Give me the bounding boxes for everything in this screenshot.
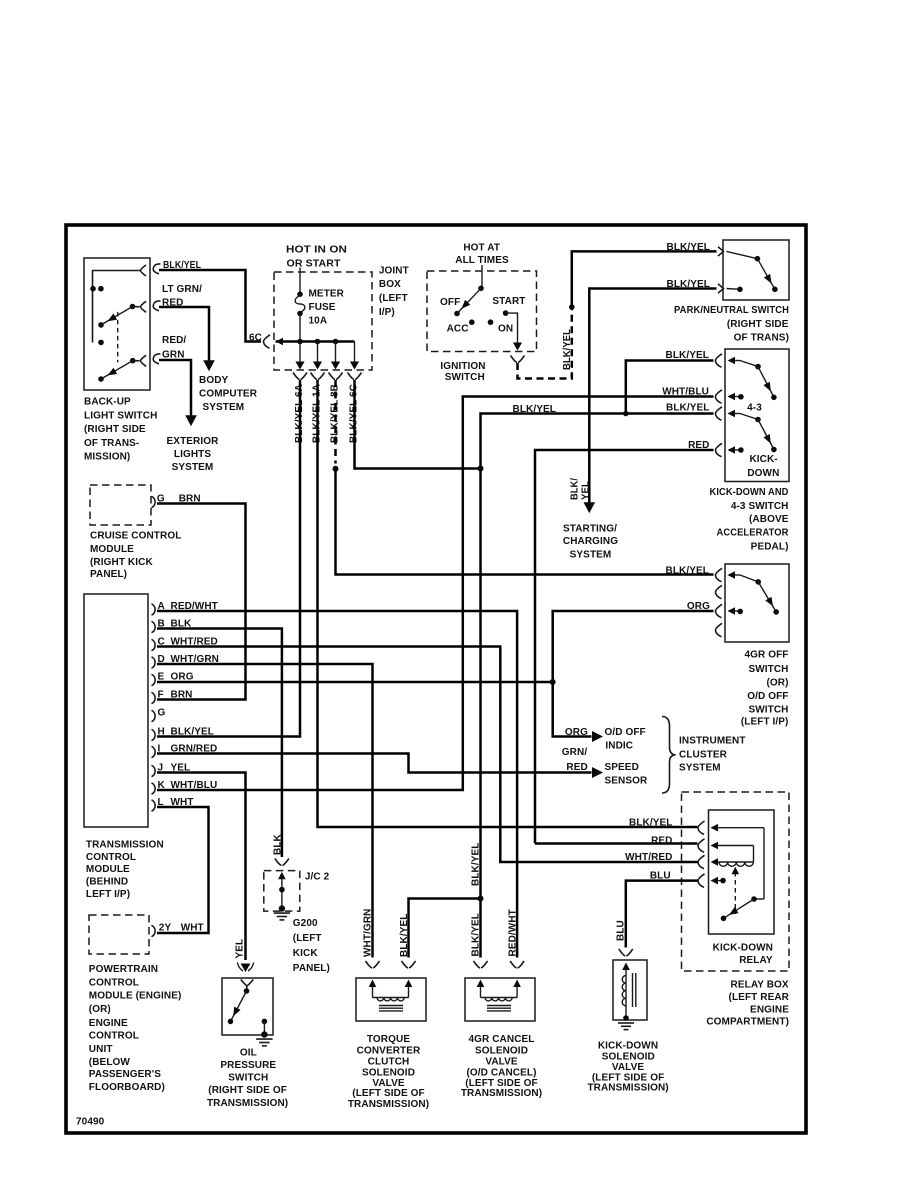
svg-text:VALVE: VALVE — [612, 1062, 645, 1073]
svg-text:RED: RED — [688, 440, 709, 451]
svg-text:G200: G200 — [293, 918, 318, 929]
svg-text:SOLENOID: SOLENOID — [475, 1045, 528, 1056]
svg-text:ENGINE: ENGINE — [89, 1018, 128, 1029]
svg-text:VALVE: VALVE — [485, 1057, 518, 1068]
back-up switch contact dots — [90, 286, 96, 292]
connector 6A below joint box — [293, 373, 307, 380]
svg-text:(OR): (OR) — [89, 1004, 111, 1015]
YEL arrow into oil pressure switch — [241, 964, 251, 973]
svg-text:START: START — [492, 296, 525, 307]
svg-text:RED/: RED/ — [162, 335, 186, 346]
svg-text:PASSENGER'S: PASSENGER'S — [89, 1069, 161, 1080]
svg-text:INDIC: INDIC — [605, 741, 633, 752]
svg-text:RELAY: RELAY — [739, 955, 773, 966]
svg-text:GRN: GRN — [162, 349, 185, 360]
oil pressure switch contacts — [244, 988, 250, 994]
bus junction dots — [297, 339, 303, 345]
svg-text:CONVERTER: CONVERTER — [357, 1045, 421, 1056]
4GR cancel solenoid connectors — [474, 961, 488, 968]
svg-text:LIGHTS: LIGHTS — [174, 449, 211, 460]
connector below ignition switch — [511, 356, 525, 363]
ignition START output — [506, 313, 518, 343]
connector 1A below joint box — [311, 373, 325, 380]
svg-text:OIL: OIL — [240, 1047, 257, 1058]
svg-text:CONTROL: CONTROL — [89, 977, 139, 988]
wire RED corner to relay — [535, 842, 698, 845]
wire BLK/YEL 8B dashed segment — [334, 380, 337, 464]
svg-text:TRANSMISSION: TRANSMISSION — [86, 839, 164, 850]
svg-text:MODULE (ENGINE): MODULE (ENGINE) — [89, 991, 182, 1002]
svg-text:FLOORBOARD): FLOORBOARD) — [89, 1082, 165, 1093]
svg-text:LEFT I/P): LEFT I/P) — [86, 889, 130, 900]
svg-text:PANEL): PANEL) — [90, 569, 127, 580]
svg-text:YEL: YEL — [235, 939, 246, 959]
svg-text:BLU: BLU — [616, 920, 627, 941]
svg-text:RED: RED — [651, 835, 672, 846]
svg-text:ACC: ACC — [447, 324, 469, 335]
joint box bus — [276, 340, 355, 343]
TCM pin E — [152, 674, 156, 685]
joint box output 6C — [354, 342, 356, 363]
svg-text:DOWN: DOWN — [747, 468, 779, 479]
svg-text:SPEED: SPEED — [605, 762, 639, 773]
svg-text:70490: 70490 — [76, 1116, 105, 1127]
svg-text:RELAY BOX: RELAY BOX — [731, 980, 789, 991]
svg-text:BLK/: BLK/ — [570, 478, 581, 500]
ignition feed wire — [481, 265, 483, 288]
svg-text:PARK/NEUTRAL SWITCH: PARK/NEUTRAL SWITCH — [674, 305, 789, 316]
wire from hot-in-on into joint box — [299, 268, 301, 294]
svg-text:TRANSMISSION): TRANSMISSION) — [207, 1098, 288, 1109]
svg-text:BLK/YEL: BLK/YEL — [513, 404, 556, 415]
svg-text:BLK/YEL: BLK/YEL — [666, 402, 709, 413]
meter fuse 10A — [297, 291, 303, 297]
svg-text:CLUTCH: CLUTCH — [368, 1057, 410, 1068]
ignition contacts — [469, 319, 475, 325]
svg-text:(O/D CANCEL): (O/D CANCEL) — [466, 1068, 536, 1079]
wire BLK pin B to junction connector 2 — [157, 629, 282, 858]
svg-text:CRUISE CONTROL: CRUISE CONTROL — [90, 531, 181, 542]
ground G200 — [279, 905, 285, 911]
4GR OFF internals — [728, 571, 736, 579]
svg-text:K: K — [158, 780, 166, 791]
back-up switch connectors — [141, 265, 147, 276]
wire YEL pin J to oil pressure switch — [157, 773, 246, 961]
wire RED/WHT pin A to 4GR cancel solenoid — [157, 611, 517, 958]
svg-text:KICK-: KICK- — [749, 454, 777, 465]
svg-text:OF TRANS-: OF TRANS- — [84, 438, 139, 449]
svg-text:MISSION): MISSION) — [84, 452, 130, 463]
svg-text:BLK: BLK — [273, 833, 284, 855]
node BLK/YEL 6C junction — [478, 466, 484, 472]
wire ORG pin E to junction — [157, 681, 550, 684]
kick-down switch contact RED — [728, 446, 736, 454]
wire RED/GRN to exterior lights system — [159, 360, 191, 416]
back-up switch pole 1 — [130, 304, 136, 310]
wire BLK/YEL to park/neutral pin 2 — [589, 289, 716, 506]
oil pressure switch box — [222, 978, 273, 1035]
svg-text:TRANSMISSION): TRANSMISSION) — [587, 1082, 668, 1093]
svg-text:4GR OFF: 4GR OFF — [744, 650, 788, 661]
TCM pin I — [152, 746, 156, 757]
transmission control module box — [84, 594, 148, 827]
park/neutral internals — [727, 251, 758, 258]
svg-text:SWITCH: SWITCH — [748, 705, 788, 716]
svg-text:COMPARTMENT): COMPARTMENT) — [706, 1016, 789, 1027]
svg-text:BLK/YEL: BLK/YEL — [666, 565, 709, 576]
relay connectors — [698, 821, 705, 834]
svg-text:(RIGHT SIDE: (RIGHT SIDE — [84, 424, 146, 435]
ignition switch dashed box — [427, 271, 537, 352]
svg-text:(ABOVE: (ABOVE — [749, 514, 789, 525]
svg-text:OF TRANS): OF TRANS) — [734, 333, 789, 344]
svg-text:CHARGING: CHARGING — [563, 536, 618, 547]
svg-text:TRANSMISSION): TRANSMISSION) — [461, 1088, 542, 1099]
torque solenoid connectors — [366, 961, 380, 968]
svg-text:BODY: BODY — [199, 375, 229, 386]
svg-text:WHT/GRN: WHT/GRN — [363, 909, 374, 957]
svg-text:SYSTEM: SYSTEM — [203, 402, 245, 413]
svg-text:ORG: ORG — [565, 727, 588, 738]
node BLK/YEL at kick-down feed — [623, 411, 629, 417]
svg-text:2Y: 2Y — [159, 922, 172, 933]
powertrain pin 2Y — [152, 925, 156, 936]
kick-down solenoid connector — [619, 949, 633, 956]
svg-text:I/P): I/P) — [379, 307, 395, 318]
TCM pin D — [152, 657, 156, 668]
svg-text:ENGINE: ENGINE — [750, 1005, 789, 1016]
svg-text:KICK-DOWN: KICK-DOWN — [713, 942, 773, 953]
svg-text:(LEFT I/P): (LEFT I/P) — [741, 717, 789, 728]
svg-text:KICK-DOWN AND: KICK-DOWN AND — [710, 487, 789, 498]
svg-text:EXTERIOR: EXTERIOR — [167, 436, 220, 447]
kick-down solenoid valve box — [613, 960, 647, 1020]
instrument cluster brace — [662, 717, 676, 794]
J/C 2 internal — [278, 872, 286, 880]
svg-text:O/D OFF: O/D OFF — [747, 691, 788, 702]
svg-text:4-3 SWITCH: 4-3 SWITCH — [731, 501, 789, 512]
ground below oil pressure switch — [261, 1031, 267, 1037]
wire BLK/YEL 1A to kick-down relay — [318, 380, 698, 827]
4GR OFF switch connectors — [715, 568, 722, 581]
svg-text:FUSE: FUSE — [309, 302, 336, 313]
svg-text:PANEL): PANEL) — [293, 963, 330, 974]
border frame — [66, 225, 806, 1133]
oil pressure switch connector Y — [241, 980, 254, 992]
svg-text:WHT: WHT — [181, 922, 204, 933]
svg-text:CONTROL: CONTROL — [89, 1030, 139, 1041]
svg-text:PRESSURE: PRESSURE — [220, 1060, 276, 1071]
svg-text:SWITCH: SWITCH — [445, 372, 485, 383]
wire BLK/YEL branch to torque solenoid — [409, 899, 481, 958]
node BLK/YEL junction — [569, 304, 575, 310]
park/neutral connectors — [718, 247, 724, 256]
svg-text:OFF: OFF — [440, 297, 460, 308]
back-up switch internal wire — [93, 271, 141, 343]
svg-text:BLK/YEL: BLK/YEL — [667, 242, 710, 253]
powertrain control module dashed box — [89, 915, 149, 954]
wire BLK/YEL down to starting/charging arrow — [584, 502, 596, 513]
svg-text:10A: 10A — [309, 316, 328, 327]
node ORG junction — [550, 679, 556, 685]
svg-text:BLK/YEL: BLK/YEL — [629, 818, 672, 829]
svg-text:MODULE: MODULE — [86, 864, 130, 875]
back-up switch dashed link — [117, 312, 119, 363]
wire BRN cruise to TCM pin F — [157, 504, 246, 700]
svg-text:4-3: 4-3 — [747, 402, 762, 413]
svg-text:BLK/YEL: BLK/YEL — [562, 329, 573, 370]
wire BLK/YEL back-up switch to joint box 6C — [159, 270, 261, 342]
svg-text:ACCELERATOR: ACCELERATOR — [717, 528, 790, 539]
relay coil circuit — [711, 824, 719, 832]
svg-text:RED/WHT: RED/WHT — [508, 909, 519, 956]
relay box dashed enclosure — [682, 792, 790, 971]
svg-text:OR START: OR START — [287, 258, 341, 269]
svg-text:BLK/YEL: BLK/YEL — [666, 350, 709, 361]
kick-down relay box — [709, 810, 775, 934]
back-up light switch box — [84, 258, 150, 390]
svg-text:BLK/YEL: BLK/YEL — [471, 913, 482, 956]
svg-text:SYSTEM: SYSTEM — [570, 550, 612, 561]
svg-text:(LEFT: (LEFT — [379, 293, 408, 304]
svg-text:4GR CANCEL: 4GR CANCEL — [468, 1034, 534, 1045]
connector to J/C 2 — [275, 859, 289, 866]
torque solenoid coil — [369, 980, 377, 988]
svg-text:BRN: BRN — [171, 690, 193, 701]
kick-down switch contact — [728, 410, 736, 418]
svg-text:(LEFT SIDE OF: (LEFT SIDE OF — [352, 1088, 424, 1099]
svg-text:(BEHIND: (BEHIND — [86, 877, 128, 888]
svg-text:(RIGHT KICK: (RIGHT KICK — [90, 557, 153, 568]
ignition switch blade — [478, 286, 484, 292]
svg-text:(LEFT: (LEFT — [293, 933, 322, 944]
svg-text:RED: RED — [162, 298, 183, 309]
svg-text:YEL: YEL — [581, 481, 592, 500]
wire BLK/YEL 4-3 feed — [626, 361, 714, 412]
joint box output 8B — [335, 342, 337, 363]
wire BLK/YEL kick-down feed to main BLK/YEL net — [481, 414, 714, 467]
TCM pin L — [152, 800, 156, 811]
svg-text:BLK/YEL: BLK/YEL — [171, 727, 214, 738]
svg-text:KICK-DOWN: KICK-DOWN — [598, 1041, 658, 1052]
4GR OFF switch box — [725, 564, 789, 642]
svg-text:SYSTEM: SYSTEM — [679, 762, 721, 773]
svg-text:SENSOR: SENSOR — [605, 776, 649, 787]
wire RED from kick-down switch — [535, 450, 714, 844]
svg-text:STARTING/: STARTING/ — [563, 524, 617, 535]
svg-text:6C: 6C — [249, 333, 262, 344]
svg-text:METER: METER — [309, 289, 345, 300]
wire WHT/BLU to TCM pin K — [157, 397, 714, 791]
svg-text:CONTROL: CONTROL — [86, 852, 136, 863]
TCM pin B — [152, 621, 156, 632]
ground below kick-down solenoid — [623, 1015, 629, 1021]
svg-text:ON: ON — [498, 324, 513, 335]
svg-text:LIGHT SWITCH: LIGHT SWITCH — [84, 410, 157, 421]
svg-text:J/C 2: J/C 2 — [305, 872, 330, 883]
svg-text:H: H — [158, 727, 165, 738]
svg-text:TORQUE: TORQUE — [367, 1034, 410, 1045]
svg-text:TRANSMISSION): TRANSMISSION) — [348, 1099, 429, 1110]
svg-text:SOLENOID: SOLENOID — [362, 1068, 415, 1079]
svg-text:HOT AT: HOT AT — [463, 242, 500, 253]
wire ORG to 4GR OFF switch — [553, 611, 714, 680]
wire WHT pin L to powertrain 2Y — [157, 807, 209, 933]
wire BLK/YEL 6A to TCM pin H — [157, 380, 300, 737]
svg-text:SWITCH: SWITCH — [748, 664, 788, 675]
relay actuation dashed link — [734, 872, 736, 914]
wire BLK/YEL 8B to 4GR OFF switch — [336, 469, 714, 575]
wire BLK/YEL 6C branch — [355, 380, 479, 469]
svg-text:(RIGHT SIDE: (RIGHT SIDE — [727, 319, 789, 330]
TCM pin C — [152, 639, 156, 650]
svg-text:WHT/BLU: WHT/BLU — [662, 386, 709, 397]
svg-text:F: F — [158, 690, 164, 701]
relay contact — [751, 896, 757, 902]
svg-text:BLK/YEL: BLK/YEL — [471, 843, 482, 886]
svg-text:ALL TIMES: ALL TIMES — [455, 255, 509, 266]
svg-text:WHT/RED: WHT/RED — [625, 852, 672, 863]
park/neutral switch box — [723, 240, 789, 300]
TCM pin K — [152, 783, 156, 794]
cruise pin G — [152, 496, 156, 507]
joint box dashed enclosure — [274, 272, 372, 370]
svg-text:GRN/: GRN/ — [562, 747, 588, 758]
svg-text:(BELOW: (BELOW — [89, 1057, 131, 1068]
svg-text:KICK: KICK — [293, 948, 319, 959]
svg-text:BACK-UP: BACK-UP — [84, 397, 131, 408]
wire LT GRN/RED to body computer system — [159, 307, 209, 361]
4GR cancel solenoid valve box — [465, 978, 535, 1021]
svg-text:BLK/YEL: BLK/YEL — [163, 260, 201, 271]
wire BLK/YEL to park/neutral pin 1 — [572, 251, 717, 307]
4-3 switch contact top — [728, 357, 736, 365]
kick-down and 4-3 switch box — [725, 349, 789, 482]
svg-text:CLUSTER: CLUSTER — [679, 750, 728, 761]
TCM pin H — [152, 729, 156, 740]
wire BLU kick-down solenoid to relay — [626, 881, 698, 948]
TCM pin A — [152, 604, 156, 615]
TCM pin F — [152, 692, 156, 703]
svg-text:(LEFT REAR: (LEFT REAR — [729, 992, 790, 1003]
node BLK/YEL to torque solenoid branch — [478, 896, 484, 902]
back-up switch pole 2 — [130, 358, 136, 364]
svg-text:O/D OFF: O/D OFF — [605, 727, 646, 738]
wire WHT/RED pin C to kick-down relay — [157, 647, 698, 863]
back-up switch harness connectors — [153, 264, 160, 274]
svg-text:BLK/YEL: BLK/YEL — [667, 279, 710, 290]
cruise control module dashed box — [90, 485, 151, 525]
svg-text:POWERTRAIN: POWERTRAIN — [89, 964, 158, 975]
svg-text:SYSTEM: SYSTEM — [172, 462, 214, 473]
svg-text:HOT IN ON: HOT IN ON — [286, 244, 347, 255]
TCM pin G — [152, 710, 156, 721]
svg-text:COMPUTER: COMPUTER — [199, 389, 258, 400]
TCM pin J — [152, 765, 156, 776]
svg-text:WHT/BLU: WHT/BLU — [171, 780, 218, 791]
torque converter clutch solenoid box — [356, 978, 426, 1021]
connector 6C below joint box — [348, 373, 362, 380]
svg-text:SWITCH: SWITCH — [228, 1073, 268, 1084]
svg-text:G: G — [158, 708, 166, 719]
svg-text:(OR): (OR) — [766, 677, 788, 688]
svg-text:INSTRUMENT: INSTRUMENT — [679, 735, 746, 746]
wire WHT/GRN pin D to torque converter clutch solenoid — [157, 664, 373, 958]
svg-text:MODULE: MODULE — [90, 544, 134, 555]
node 8B junction — [333, 466, 339, 472]
wire GRN/RED pin I to speed sensor — [157, 754, 592, 773]
wire BLK/YEL net down to 4GR cancel solenoid — [479, 469, 482, 958]
connector 8B below joint box — [329, 373, 343, 380]
joint box output 6A — [299, 342, 301, 363]
svg-text:ORG: ORG — [687, 601, 710, 612]
wire BLK/YEL dashed from ignition to park/neutral feed — [518, 309, 572, 379]
kick-down solenoid coil — [622, 963, 630, 971]
svg-text:PEDAL): PEDAL) — [751, 541, 789, 552]
svg-text:JOINT: JOINT — [379, 265, 409, 276]
svg-text:UNIT: UNIT — [89, 1044, 113, 1055]
junction connector J/C 2 dashed box — [264, 871, 300, 912]
svg-text:RED: RED — [566, 762, 587, 773]
svg-text:IGNITION: IGNITION — [440, 361, 485, 372]
svg-text:(RIGHT SIDE OF: (RIGHT SIDE OF — [208, 1085, 287, 1096]
4GR cancel solenoid coil — [477, 980, 485, 988]
svg-text:BOX: BOX — [379, 279, 401, 290]
wire ORG junction to O/D OFF indicator — [553, 682, 592, 737]
svg-text:LT GRN/: LT GRN/ — [162, 284, 202, 295]
4-3 switch contact WHT/BLU — [728, 393, 736, 401]
joint box output 1A — [317, 342, 319, 363]
